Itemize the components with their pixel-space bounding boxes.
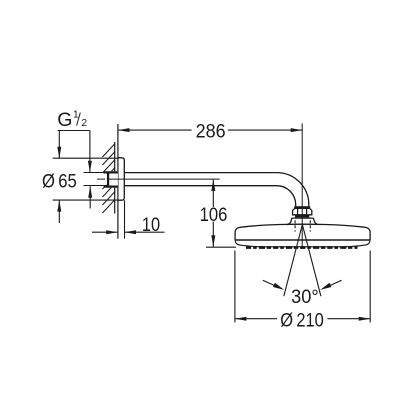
svg-text:2: 2 (81, 118, 87, 129)
dimension O65: extension lines (53, 157, 118, 159)
svg-text:286: 286 (196, 121, 226, 143)
wall face line (117, 124, 119, 239)
svg-text:G: G (57, 109, 72, 131)
svg-text:106: 106 (200, 204, 228, 226)
dimension O65: upper arrow (58, 131, 60, 159)
union thread band (294, 206, 310, 208)
spray angle line left (284, 225, 303, 297)
union nut (293, 208, 312, 214)
G1/2 leader arrow to thread top (89, 131, 91, 173)
dimension 286: right extension / head centerline (301, 123, 303, 247)
angle arrow right (328, 280, 342, 286)
G1/2 lower arrow to thread bottom (89, 186, 91, 208)
wall hatching (103, 144, 116, 214)
dimension 106: line and arrows (212, 179, 214, 207)
spray nozzle row (246, 246, 358, 249)
dimension 10: arrows (92, 231, 118, 233)
shower arm tube top (124, 173, 308, 207)
escutcheon flange (118, 158, 124, 200)
angle arrow left (263, 280, 277, 286)
dimension 286: line and arrows (118, 129, 192, 131)
shower arm tube bottom (124, 186, 295, 207)
head disc outline: top dome and side edges (235, 224, 370, 240)
supply pipe lines (84, 172, 109, 174)
seam line (235, 239, 370, 241)
spray angle line right (302, 225, 321, 297)
bottom face outline (235, 241, 370, 247)
svg-text:10: 10 (142, 214, 160, 236)
knurled collar (295, 215, 309, 218)
wall inner line (114, 142, 116, 214)
dimension O65: lower arrow (58, 200, 60, 223)
dimension O210: line and arrows (235, 318, 277, 320)
dimension O210: extension lines (234, 251, 236, 323)
center dot (301, 246, 304, 249)
G1/2 leader underline (58, 130, 90, 132)
hidden thread dashes (295, 220, 310, 231)
head hub flare (287, 218, 319, 225)
arm centerline (97, 178, 105, 180)
svg-text:Ø 210: Ø 210 (280, 309, 324, 331)
dimension 106: bottom extension line (206, 246, 236, 248)
dimension 10: flange extension line (124, 200, 126, 239)
supply pipe interior (84, 173, 108, 185)
svg-text:Ø 65: Ø 65 (42, 171, 77, 193)
svg-text:30°: 30° (291, 286, 319, 308)
thread stub G1/2 behind wall (107, 171, 118, 187)
